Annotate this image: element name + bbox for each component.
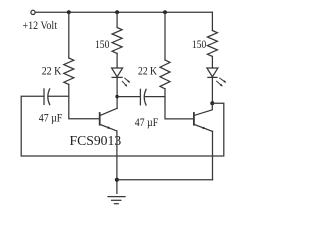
wire Q1 collector to C2 (117, 96, 140, 98)
wire Q2 emitter down (212, 131, 214, 179)
wire R2 to LED1 (116, 53, 118, 68)
LED D2 (207, 68, 227, 87)
node emitter junction (115, 178, 119, 182)
resistor R4 150 (207, 31, 217, 57)
wire rail to R1 (68, 12, 70, 58)
wire C1 to R1 bottom (48, 95, 69, 97)
node rail-R1 (67, 10, 71, 14)
transistor Q2 FCS9013 (194, 103, 213, 131)
svg-text:22 K: 22 K (138, 64, 157, 78)
LED D1 (112, 68, 131, 87)
svg-text:150: 150 (95, 37, 109, 51)
wire LED1 to Q1 collector (116, 77, 118, 108)
wire emitters join (117, 179, 213, 181)
wire rail to R3 (164, 12, 166, 60)
resistor R1 22K (64, 58, 74, 84)
wire top rail (35, 11, 212, 13)
wire R4 to LED2 (211, 56, 213, 68)
wire R3 to Q2 base (165, 89, 193, 119)
svg-text:FCS9013: FCS9013 (70, 133, 122, 148)
transistor Q1 FCS9013 (100, 108, 117, 131)
svg-text:47 µF: 47 µF (135, 115, 159, 129)
capacitor C2 47uF (140, 89, 146, 105)
terminal +12V input (31, 10, 35, 14)
svg-text:47 µF: 47 µF (39, 110, 63, 124)
node rail-R2 (115, 10, 119, 14)
ground (108, 197, 125, 204)
svg-text:22 K: 22 K (42, 64, 62, 78)
wire C2 to R3 bottom (145, 96, 165, 98)
node Q2 collector (210, 101, 214, 105)
svg-text:+12 Volt: +12 Volt (23, 18, 58, 32)
resistor R2 150 (112, 28, 122, 54)
wire R1 to Q1 base (69, 84, 99, 118)
node rail-R3 (163, 10, 167, 14)
wire Q1 emitter to ground (116, 131, 118, 193)
svg-text:150: 150 (192, 37, 206, 51)
resistor R3 22K (160, 60, 170, 89)
node C2 tap (115, 95, 118, 98)
capacitor C1 47uF (44, 89, 50, 105)
wire feedback loop from Q2 collector to C1 (21, 96, 224, 156)
wire LED2 to Q2 collector node (211, 77, 213, 103)
wire rail to R2 (116, 12, 118, 27)
wire rail to R4 (211, 12, 213, 30)
